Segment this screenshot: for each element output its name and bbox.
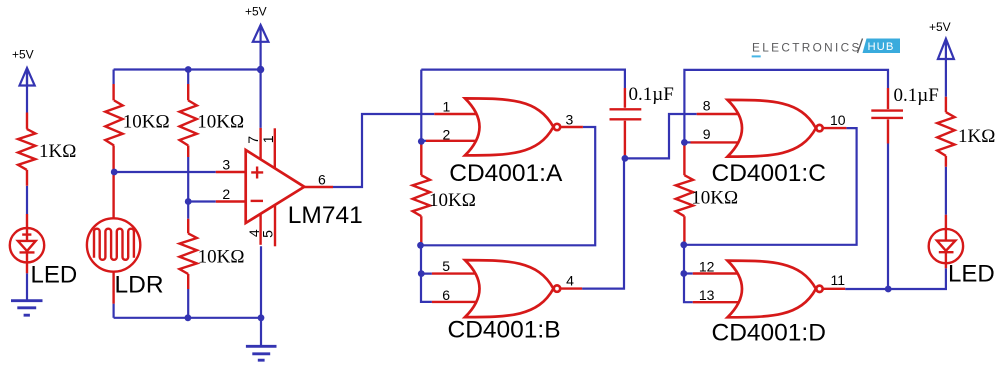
wire: right +5V branch segments	[945, 59, 947, 215]
gate D input 12 red stub	[693, 272, 742, 274]
resistor R7 1K leads	[945, 97, 947, 167]
svg-text:1KΩ: 1KΩ	[958, 126, 995, 147]
op-amp output pin 6 red stub	[304, 186, 333, 188]
wire: top rail from LDR divider to +5V	[114, 68, 261, 70]
op-amp U1 pin 1 line	[274, 128, 276, 169]
svg-text:+5V: +5V	[929, 20, 951, 34]
svg-text:2: 2	[443, 127, 451, 143]
wire: middle divider column segments	[187, 70, 189, 318]
op-amp U1 pin 7 line	[259, 128, 261, 163]
gate D output red stub	[824, 288, 846, 290]
svg-text:LED: LED	[948, 261, 995, 288]
NOR gate CD4001:D body	[728, 261, 816, 318]
wire: node to pin 3 of op-amp	[114, 171, 216, 173]
svg-text:CD4001:C: CD4001:C	[712, 160, 826, 187]
wire: op-amp pin 4 down to ground	[260, 246, 262, 346]
svg-text:10KΩ: 10KΩ	[197, 112, 244, 133]
LED D1 leads	[26, 214, 28, 273]
wire: feedback node down to gate D inputs 12 and 13	[684, 245, 693, 302]
svg-text:10KΩ: 10KΩ	[691, 188, 738, 209]
gate B input 6 red stub	[432, 301, 479, 303]
ground left	[11, 301, 43, 316]
logo underline accent	[752, 55, 761, 57]
svg-text:8: 8	[703, 97, 711, 113]
svg-text:CD4001:D: CD4001:D	[712, 320, 826, 347]
svg-text:3: 3	[222, 157, 230, 173]
logo HUB box	[863, 39, 901, 54]
svg-text:LED: LED	[31, 262, 78, 289]
LED D1 triangle and cathode bar	[18, 229, 36, 263]
svg-text:0.1µF: 0.1µF	[894, 85, 939, 106]
wire: node B vertical and top rail right oscillator to capacitor C2	[684, 70, 888, 142]
op-amp U1 pin 5 line	[274, 205, 276, 246]
resistor R2 10K leads	[112, 84, 114, 172]
op-amp minus input marking	[251, 200, 263, 202]
resistor R1 1K left	[18, 129, 35, 170]
gate B output bubble	[554, 285, 560, 291]
svg-text:+5V: +5V	[12, 48, 34, 62]
gate C output red stub	[824, 127, 847, 129]
resistor R6 10K (gate C feedback)	[676, 175, 693, 216]
LDR leads	[112, 172, 114, 304]
wire: node B stub to gate C input 9	[684, 141, 690, 143]
gate B output red stub	[561, 287, 582, 289]
svg-text:5: 5	[442, 258, 450, 274]
wire: gate D output to right LED cathode	[845, 268, 946, 289]
gate D input 13 red stub	[693, 301, 742, 303]
wire: left LED branch top segment	[26, 69, 28, 113]
svg-text:12: 12	[699, 258, 715, 274]
svg-text:4: 4	[566, 273, 574, 289]
wire: feedback node down to gate B inputs 5 and 6	[421, 245, 432, 302]
capacitor C2 plates	[871, 111, 903, 118]
wire: gate A output feedback loop	[421, 127, 596, 245]
wire pin2 red stub into op-amp	[216, 200, 247, 202]
wire: LDR column upper	[112, 70, 114, 85]
LED D2 leads	[945, 215, 947, 268]
svg-text:ELECTRONICS: ELECTRONICS	[752, 40, 862, 54]
LDR serpentine element	[94, 229, 134, 260]
wire: top rail left oscillator to capacitor C1	[421, 70, 625, 88]
NOR gate CD4001:B body	[465, 260, 553, 317]
resistor R6 10K leads	[683, 142, 685, 244]
wire: node A vertical from top rail to gate A input 2	[420, 70, 422, 142]
wire: left LED branch bottom segment to ground	[26, 273, 28, 301]
capacitor C1 plates	[610, 109, 642, 119]
svg-text:LDR: LDR	[115, 272, 164, 299]
svg-text:CD4001:A: CD4001:A	[449, 160, 563, 187]
power +5V mid arrow	[253, 25, 269, 42]
wire: LDR column lower (below LDR to bottom rail)	[112, 304, 114, 318]
power +5V left arrow	[20, 68, 35, 86]
svg-text:10: 10	[830, 112, 846, 128]
gate B input 5 red stub	[432, 272, 479, 274]
resistor R5 10K (gate A feedback)	[413, 175, 430, 216]
svg-text:2: 2	[222, 186, 230, 202]
NOR gate CD4001:C body	[728, 100, 816, 157]
svg-text:7: 7	[245, 136, 261, 144]
wire: capacitor C1 bottom node to gate C input 8	[625, 114, 697, 158]
resistor R4 10K leads	[187, 219, 189, 289]
junction node dots oscillator section	[418, 138, 425, 145]
gate A output red stub	[561, 126, 583, 128]
gate D output bubble	[816, 286, 822, 292]
svg-text:LM741: LM741	[288, 202, 363, 229]
svg-text:+5V: +5V	[245, 4, 267, 18]
resistor R3 10K leads	[187, 84, 189, 157]
svg-text:1: 1	[260, 135, 276, 143]
gate C output bubble	[816, 125, 822, 131]
ground mid	[246, 346, 277, 360]
gate C input 9 red stub	[691, 141, 742, 143]
svg-text:10KΩ: 10KΩ	[198, 247, 245, 268]
gate A input 1 red stub	[434, 113, 479, 115]
capacitor C2 leads	[887, 88, 889, 144]
wire pin3 red stub into op-amp	[216, 171, 247, 173]
resistor R5 10K leads	[420, 141, 422, 245]
junction node dots left section	[185, 66, 192, 73]
svg-text:9: 9	[703, 126, 711, 142]
wire: gate C output feedback loop	[684, 128, 857, 245]
svg-text:10KΩ: 10KΩ	[429, 190, 476, 211]
svg-text:10KΩ: 10KΩ	[123, 112, 170, 133]
LED D1 circle	[10, 228, 44, 262]
svg-text:HUB: HUB	[868, 41, 895, 53]
wire: capacitor C2 bottom down to gate D output line	[887, 144, 889, 290]
gate A input 2 red stub	[421, 140, 426, 142]
wire: op-amp output pin 6 over to gate A input 1	[333, 114, 434, 187]
wire: node to pin 2 of op-amp	[188, 200, 216, 202]
svg-text:3: 3	[566, 112, 574, 128]
svg-text:0.1µF: 0.1µF	[629, 84, 674, 105]
LDR circle	[87, 218, 140, 271]
LED D2 triangle and cathode bar	[937, 229, 956, 263]
svg-text:1: 1	[443, 99, 451, 115]
op-amp U1 pin 4 line	[259, 210, 261, 245]
resistor R1 1K left leads	[26, 113, 28, 186]
svg-text:5: 5	[260, 230, 276, 238]
capacitor C1 leads	[624, 88, 626, 158]
resistor R7 1K right	[937, 112, 954, 156]
svg-text:6: 6	[442, 287, 450, 303]
svg-text:6: 6	[318, 172, 326, 188]
op-amp plus input marking	[251, 167, 263, 179]
wire: +5V supply down to op-amp pin 7	[260, 42, 262, 128]
power +5V right arrow	[938, 39, 954, 59]
gate C input 8 red stub	[697, 113, 742, 115]
NOR gate CD4001:A body	[465, 98, 553, 155]
svg-text:11: 11	[831, 272, 846, 288]
wire: gate B output up to capacitor C1 bottom node	[582, 158, 624, 288]
logo slash	[858, 39, 863, 54]
svg-text:CD4001:B: CD4001:B	[448, 317, 561, 344]
svg-text:1KΩ: 1KΩ	[39, 141, 76, 162]
svg-text:13: 13	[699, 287, 715, 303]
op-amp U1 triangle	[246, 150, 305, 223]
resistor R4 10K (below pin 2)	[180, 233, 197, 274]
LED D2 circle	[929, 229, 963, 263]
resistor R2 10K (left divider)	[105, 100, 122, 145]
resistor R3 10K (right divider)	[180, 100, 197, 145]
wire: bottom rail	[114, 317, 261, 319]
gate A output bubble	[554, 124, 560, 130]
wire: left LED branch mid segment	[26, 186, 28, 214]
